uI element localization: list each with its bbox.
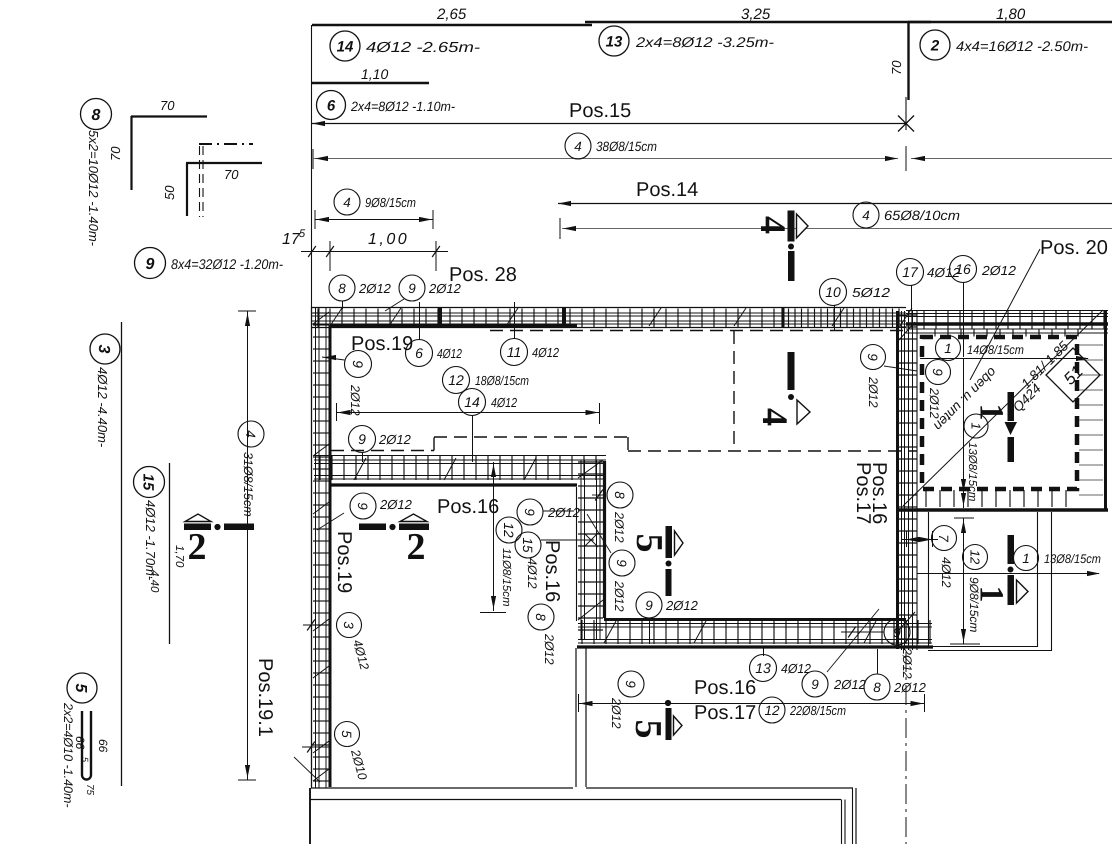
svg-text:9: 9 (645, 598, 653, 613)
svg-text:4: 4 (243, 430, 258, 438)
svg-text:9: 9 (522, 508, 537, 516)
svg-text:22Ø8/15cm: 22Ø8/15cm (789, 703, 846, 718)
svg-text:1: 1 (972, 404, 1009, 421)
svg-text:4Ø12 -1.70m-: 4Ø12 -1.70m- (143, 500, 158, 581)
svg-text:2Ø12: 2Ø12 (542, 633, 556, 665)
svg-text:13: 13 (755, 660, 771, 676)
svg-text:13Ø8/15cm: 13Ø8/15cm (966, 442, 978, 502)
svg-text:4Ø12: 4Ø12 (525, 558, 539, 589)
svg-text:2Ø12: 2Ø12 (547, 505, 581, 520)
svg-text:1,80: 1,80 (996, 6, 1026, 23)
svg-text:66: 66 (73, 736, 87, 750)
svg-text:3: 3 (341, 621, 356, 629)
svg-text:15: 15 (140, 474, 157, 491)
svg-text:7: 7 (936, 534, 951, 542)
svg-text:2: 2 (407, 526, 426, 568)
svg-text:2Ø12: 2Ø12 (981, 263, 1017, 278)
svg-text:2x4=8Ø12 -1.10m-: 2x4=8Ø12 -1.10m- (350, 99, 455, 114)
svg-text:65Ø8/10cm: 65Ø8/10cm (884, 208, 960, 223)
svg-text:12: 12 (764, 703, 780, 718)
svg-text:8: 8 (338, 281, 346, 296)
svg-text:38Ø8/15cm: 38Ø8/15cm (596, 139, 657, 154)
svg-text:2,65: 2,65 (436, 6, 467, 23)
svg-text:Pos. 20 =: Pos. 20 = (1040, 237, 1112, 259)
svg-text:5: 5 (72, 684, 89, 694)
svg-text:8: 8 (612, 491, 627, 499)
svg-text:9Ø8/15cm: 9Ø8/15cm (365, 195, 416, 210)
svg-text:2: 2 (930, 37, 940, 54)
svg-text:4x4=16Ø12 -2.50m-: 4x4=16Ø12 -2.50m- (956, 38, 1088, 54)
svg-text:6: 6 (415, 345, 423, 361)
svg-text:9: 9 (623, 680, 638, 688)
svg-text:2Ø12: 2Ø12 (833, 677, 867, 692)
svg-text:70: 70 (889, 60, 904, 75)
svg-text:31Ø8/15cm: 31Ø8/15cm (241, 452, 255, 517)
svg-text:12: 12 (967, 550, 982, 565)
svg-text:1,00: 1,00 (368, 231, 409, 248)
svg-text:70: 70 (160, 98, 175, 113)
svg-text:9: 9 (865, 353, 880, 361)
svg-text:9: 9 (355, 502, 370, 510)
svg-text:11Ø8/15cm: 11Ø8/15cm (500, 548, 512, 607)
svg-text:14: 14 (464, 394, 480, 410)
svg-text:5: 5 (628, 534, 670, 553)
svg-text:4Ø12: 4Ø12 (491, 395, 518, 410)
svg-text:Pos.16: Pos.16 (541, 540, 563, 602)
svg-text:2x4=8Ø12 -3.25m-: 2x4=8Ø12 -3.25m- (635, 34, 775, 50)
svg-text:12: 12 (448, 372, 464, 388)
svg-text:10: 10 (825, 284, 841, 300)
svg-text:8: 8 (873, 680, 881, 695)
svg-text:2Ø12: 2Ø12 (378, 432, 412, 447)
svg-text:9: 9 (614, 559, 629, 567)
svg-text:Pos.16: Pos.16 (437, 496, 499, 518)
svg-text:17: 17 (902, 264, 919, 280)
svg-text:5: 5 (627, 720, 669, 739)
svg-text:8: 8 (92, 107, 101, 124)
svg-text:18Ø8/15cm: 18Ø8/15cm (475, 373, 529, 388)
svg-text:5: 5 (339, 730, 354, 738)
svg-text:2Ø12: 2Ø12 (609, 697, 623, 729)
svg-text:2Ø12: 2Ø12 (893, 680, 927, 695)
svg-text:9: 9 (358, 431, 366, 447)
svg-text:2Ø12: 2Ø12 (379, 497, 413, 512)
svg-text:2x2=4Ø10 -1.40m-: 2x2=4Ø10 -1.40m- (61, 702, 75, 808)
svg-text:11: 11 (507, 344, 522, 360)
svg-text:1,70: 1,70 (173, 545, 185, 568)
svg-text:5Ø12: 5Ø12 (852, 285, 891, 300)
svg-text:50: 50 (162, 185, 177, 200)
svg-text:70: 70 (224, 167, 239, 182)
svg-text:66: 66 (96, 739, 110, 753)
svg-text:2Ø12: 2Ø12 (428, 281, 462, 296)
svg-text:Pos.17: Pos.17 (694, 702, 756, 724)
svg-text:4,40: 4,40 (148, 570, 160, 593)
svg-text:4: 4 (753, 216, 793, 234)
svg-text:Pos.14: Pos.14 (636, 179, 698, 201)
svg-text:14Ø8/15cm: 14Ø8/15cm (967, 343, 1024, 357)
svg-text:1,10: 1,10 (361, 66, 388, 82)
svg-text:1: 1 (1022, 551, 1030, 566)
svg-text:9: 9 (893, 625, 901, 640)
svg-text:4Ø12 -4.40m-: 4Ø12 -4.40m- (95, 367, 110, 448)
svg-text:4: 4 (343, 195, 351, 210)
svg-text:4: 4 (755, 408, 795, 426)
svg-text:16: 16 (955, 261, 971, 277)
svg-text:9: 9 (146, 256, 155, 273)
svg-text:Pos.19: Pos.19 (333, 531, 355, 593)
svg-text:2Ø12: 2Ø12 (866, 376, 880, 408)
svg-text:Pos.16: Pos.16 (868, 462, 890, 524)
svg-text:2Ø12: 2Ø12 (612, 580, 626, 612)
svg-text:5x2=10Ø12 -1.40m-: 5x2=10Ø12 -1.40m- (86, 130, 101, 247)
svg-text:6: 6 (327, 97, 336, 114)
svg-text:15: 15 (520, 537, 535, 553)
svg-text:3,25: 3,25 (741, 6, 771, 23)
svg-text:75: 75 (84, 784, 95, 796)
svg-text:Pos.15: Pos.15 (569, 100, 631, 122)
svg-text:3: 3 (95, 345, 112, 354)
svg-text:13: 13 (606, 33, 623, 50)
svg-text:2Ø12: 2Ø12 (612, 511, 626, 543)
svg-text:4: 4 (862, 208, 870, 223)
svg-text:8: 8 (533, 613, 548, 621)
svg-text:4Ø12: 4Ø12 (532, 345, 560, 360)
svg-text:Pos.16: Pos.16 (694, 677, 756, 699)
svg-text:70: 70 (108, 146, 123, 161)
svg-text:9: 9 (930, 368, 945, 376)
svg-text:2Ø12: 2Ø12 (358, 281, 392, 296)
svg-text:2: 2 (188, 526, 207, 568)
svg-text:2Ø12: 2Ø12 (900, 647, 914, 679)
svg-text:2Ø12: 2Ø12 (927, 387, 941, 419)
svg-text:4Ø12: 4Ø12 (437, 346, 463, 361)
svg-text:1: 1 (968, 422, 983, 429)
svg-text:14: 14 (337, 38, 354, 55)
svg-text:2Ø12: 2Ø12 (665, 598, 699, 613)
svg-text:4Ø12: 4Ø12 (939, 557, 953, 588)
svg-text:Pos.19.1: Pos.19.1 (254, 658, 276, 737)
svg-text:12: 12 (501, 522, 516, 538)
svg-text:4: 4 (574, 139, 582, 154)
svg-text:Pos.19: Pos.19 (351, 333, 413, 355)
svg-text:9: 9 (408, 281, 416, 296)
svg-text:9: 9 (811, 677, 819, 692)
svg-text:1: 1 (944, 341, 952, 356)
svg-text:4Ø12 -2.65m-: 4Ø12 -2.65m- (366, 40, 480, 56)
svg-text:9: 9 (350, 360, 366, 368)
svg-text:13Ø8/15cm: 13Ø8/15cm (1044, 552, 1101, 566)
svg-text:9Ø8/15cm: 9Ø8/15cm (967, 577, 981, 632)
svg-text:5: 5 (299, 228, 306, 240)
svg-text:8x4=32Ø12 -1.20m-: 8x4=32Ø12 -1.20m- (171, 256, 283, 272)
